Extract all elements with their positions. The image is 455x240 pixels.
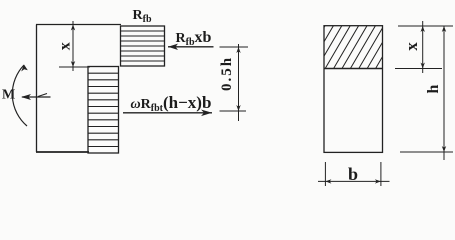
dimension h (right figure) [400, 26, 453, 160]
dimension 0.5h [220, 44, 249, 121]
svg-text:ωRfbt(h−x)b: ωRfbt(h−x)b [131, 93, 212, 114]
svg-text:x: x [57, 42, 74, 50]
left section outline bottom edge [36, 151, 89, 153]
moment horizontal arrow [22, 96, 51, 98]
svg-text:0.5h: 0.5h [219, 56, 235, 91]
left section outline vertical edge [36, 25, 38, 153]
left section outline top edge [36, 24, 121, 26]
right cross-section rectangle [324, 26, 383, 153]
compression zone boundary line [324, 68, 383, 70]
diagonal hatch of compression zone [300, 26, 401, 69]
svg-text:b: b [348, 164, 358, 184]
tension stress block (vertical hatched bar) [88, 67, 119, 154]
dimension b (below right figure) [318, 162, 390, 186]
svg-text:x: x [402, 42, 421, 51]
moment curved arrow [12, 65, 27, 126]
svg-text:Rfb: Rfb [133, 8, 152, 25]
dimension x (left figure) [59, 21, 90, 71]
force arrow omega Rfbt (h-x) b [123, 110, 212, 117]
dimension X (right figure) [395, 21, 453, 73]
force arrow Rfb x b [168, 44, 214, 50]
svg-text:h: h [425, 84, 442, 93]
compression stress block (top hatched box) [121, 26, 165, 66]
svg-text:Rfbxb: Rfbxb [176, 29, 212, 48]
